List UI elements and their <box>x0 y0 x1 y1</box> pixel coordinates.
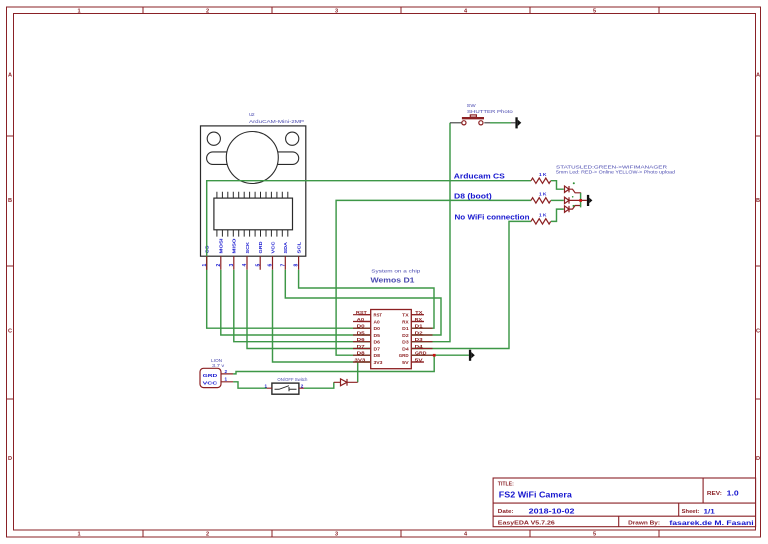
svg-text:STATUSLED:GREEN->WIFIMANAGER: STATUSLED:GREEN->WIFIMANAGER <box>556 164 668 169</box>
svg-text:2: 2 <box>301 384 304 389</box>
wire D8 (boot) net to D8 <box>336 200 531 355</box>
wire R1 to LED anode 1 <box>551 181 564 190</box>
camera module U2 ArduCAM-Mini-2MP <box>201 112 306 270</box>
svg-text:ON/OFF Switch: ON/OFF Switch <box>277 377 307 382</box>
ground (LED) <box>587 195 593 206</box>
svg-text:SW: SW <box>467 103 476 109</box>
left pin stubs <box>359 315 371 362</box>
wire R2 to LED anode 2 <box>551 199 564 201</box>
wire battery VCC to switch <box>233 382 267 388</box>
svg-text:No WiFi connection: No WiFi connection <box>455 215 530 222</box>
svg-text:A0: A0 <box>374 320 381 325</box>
svg-text:D3: D3 <box>402 340 409 345</box>
wire diode cathode up to 3V3 row <box>357 362 359 382</box>
svg-text:2018-10-02: 2018-10-02 <box>529 506 575 515</box>
svg-text:A: A <box>8 73 12 79</box>
switch ON/OFF <box>264 377 307 394</box>
svg-text:2: 2 <box>225 369 228 374</box>
svg-text:D4: D4 <box>402 347 409 352</box>
wire GRD junction down to battery GND row <box>233 355 434 374</box>
svg-text:RX: RX <box>402 320 409 325</box>
svg-text:B: B <box>756 198 760 204</box>
svg-text:1.0: 1.0 <box>727 489 739 498</box>
wire R3 to LED anode 3 <box>551 209 564 221</box>
title block <box>493 478 755 527</box>
svg-text:D7: D7 <box>374 347 381 352</box>
wire Arducam CS net: pin1 to resistor R1 and to D0 <box>207 181 531 329</box>
svg-text:3V3: 3V3 <box>374 360 383 365</box>
svg-text:1: 1 <box>264 384 267 389</box>
svg-text:D6: D6 <box>374 340 381 345</box>
svg-text:3: 3 <box>335 532 338 538</box>
svg-text:SCL: SCL <box>296 242 302 254</box>
svg-text:C: C <box>756 329 760 335</box>
svg-text:CS: CS <box>205 245 211 254</box>
svg-text:5: 5 <box>593 9 596 15</box>
svg-text:1/1: 1/1 <box>704 508 716 515</box>
wire shutter switch to D3 <box>411 123 450 342</box>
RIGHTSIDE <box>450 103 676 361</box>
wire SCK to D7 <box>247 270 371 349</box>
LED tricolor LED1 <box>565 182 587 212</box>
svg-text:Sheet:: Sheet: <box>682 509 700 515</box>
svg-text:5: 5 <box>593 532 596 538</box>
svg-text:LION: LION <box>211 358 223 364</box>
right pin stubs <box>411 315 423 362</box>
module U1 Wemos D1 <box>354 269 427 369</box>
svg-text:1: 1 <box>77 9 80 15</box>
wire MISO to D6 <box>234 270 371 342</box>
pushbutton SW SHUTTER Photo <box>450 103 515 125</box>
svg-text:D8 (boot): D8 (boot) <box>454 193 492 200</box>
svg-text:5mm Led: RED-> Online YELLOW->: 5mm Led: RED-> Online YELLOW-> Photo upl… <box>556 170 676 175</box>
svg-text:SCK: SCK <box>245 241 251 253</box>
svg-text:3: 3 <box>335 9 338 15</box>
module pin stubs <box>207 256 299 270</box>
svg-text:ArduCAM-Mini-2MP: ArduCAM-Mini-2MP <box>249 119 304 125</box>
svg-text:D0: D0 <box>374 326 381 331</box>
svg-text:D2: D2 <box>402 333 409 338</box>
junction dot <box>433 354 436 357</box>
svg-text:REV:: REV: <box>707 491 722 497</box>
svg-text:D1: D1 <box>402 326 409 331</box>
connector LION battery <box>200 358 233 388</box>
svg-text:MISO: MISO <box>232 238 238 253</box>
ground (Wemos GRD) <box>469 350 475 361</box>
svg-text:D: D <box>756 456 760 462</box>
wire VCC to 3V3 <box>273 270 371 362</box>
svg-text:1 K: 1 K <box>539 213 547 218</box>
wire switch to diode <box>304 382 334 388</box>
svg-text:TITLE:: TITLE: <box>498 482 514 488</box>
svg-text:Arducam CS: Arducam CS <box>454 174 505 181</box>
WIRES <box>207 123 531 388</box>
wire MOSI to D5 <box>221 270 371 335</box>
svg-text:VCC: VCC <box>270 241 276 254</box>
pin stub overlays (red over green near chip) <box>353 315 371 362</box>
svg-text:5V: 5V <box>402 360 410 365</box>
svg-text:Drawn By:: Drawn By: <box>628 521 660 527</box>
svg-text:1: 1 <box>225 377 228 382</box>
wire No WiFi connection net to D4 <box>411 221 531 348</box>
svg-text:D5: D5 <box>374 333 381 338</box>
svg-text:System on a chip: System on a chip <box>371 269 420 275</box>
svg-text:GRD: GRD <box>399 353 410 358</box>
svg-text:RST: RST <box>374 313 383 318</box>
wire SCL to D1 <box>299 270 434 328</box>
svg-text:fasarek.de M. Fasani: fasarek.de M. Fasani <box>669 520 754 527</box>
svg-text:2: 2 <box>206 532 209 538</box>
svg-text:SHUTTER Photo: SHUTTER Photo <box>467 109 513 115</box>
inside pin names <box>374 313 410 365</box>
wire SDA to D2 <box>285 270 441 335</box>
wire GRD pin to ground <box>411 354 469 356</box>
svg-text:TX: TX <box>402 313 410 318</box>
module pin name labels <box>205 238 303 254</box>
ground (shutter) <box>515 117 521 128</box>
svg-text:GRD: GRD <box>258 241 264 254</box>
svg-text:D: D <box>8 456 12 462</box>
POWER <box>200 358 358 394</box>
svg-text:VCC: VCC <box>203 380 218 386</box>
svg-text:A: A <box>756 73 760 79</box>
svg-text:Wemos D1: Wemos D1 <box>371 276 416 285</box>
svg-text:1 K: 1 K <box>539 172 547 177</box>
diode D1 <box>334 379 358 386</box>
svg-text:C: C <box>8 329 12 335</box>
svg-text:FS2 WiFi Camera: FS2 WiFi Camera <box>499 490 573 499</box>
external net labels <box>354 310 427 362</box>
svg-text:SDA: SDA <box>283 241 289 253</box>
svg-text:D8: D8 <box>374 353 381 358</box>
svg-text:GRD: GRD <box>203 373 218 379</box>
svg-text:B: B <box>8 198 12 204</box>
IC on module <box>214 198 293 230</box>
svg-text:1: 1 <box>77 532 80 538</box>
svg-text:EasyEDA V5.7.26: EasyEDA V5.7.26 <box>498 521 555 527</box>
svg-text:1 K: 1 K <box>539 192 547 197</box>
svg-text:U2: U2 <box>249 112 255 118</box>
svg-text:Date:: Date: <box>498 509 514 515</box>
svg-text:MOSI: MOSI <box>219 238 225 254</box>
svg-text:2: 2 <box>206 9 209 15</box>
module pin numbers <box>202 264 300 267</box>
